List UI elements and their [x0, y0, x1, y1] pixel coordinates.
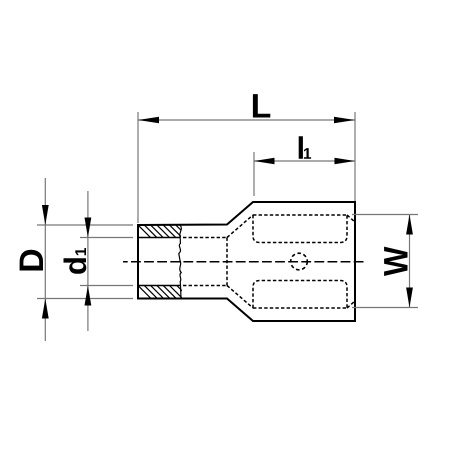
- arrow d1 bottom: [85, 286, 92, 306]
- crimp barrel inner wall bottom (solid): [138, 285, 181, 287]
- label W: [384, 247, 407, 276]
- hatch: barrel wall section top: [136, 223, 190, 239]
- extension line l1 left: [253, 152, 255, 196]
- hidden line: barrel bore bottom: [183, 285, 227, 287]
- label D: [20, 250, 43, 271]
- hidden line: taper inner bottom diagonal: [227, 286, 253, 309]
- arrow d1 top: [85, 218, 92, 238]
- arrow D bottom: [42, 299, 49, 319]
- dimension line L: [138, 119, 355, 121]
- hidden contact window bottom: [253, 281, 355, 309]
- extension line W bottom: [352, 307, 418, 309]
- hidden line: barrel end vertical: [226, 238, 228, 286]
- arrow L right: [334, 117, 355, 124]
- extension line D bottom: [37, 298, 133, 300]
- label L: [253, 94, 270, 117]
- extension line d1 bottom: [80, 285, 133, 287]
- extension line L/l1 right: [354, 112, 356, 201]
- label l1: [299, 136, 311, 159]
- crimp barrel inner wall top (solid): [138, 237, 180, 239]
- dimension line d1: [87, 191, 89, 331]
- label d1: [64, 248, 87, 274]
- extension line d1 top: [80, 237, 133, 239]
- extension line D top: [37, 224, 133, 226]
- terminal body outline: [138, 202, 355, 321]
- extension line L left: [137, 112, 139, 223]
- arrow W bottom: [406, 288, 413, 308]
- break line (wavy): [179, 225, 182, 299]
- hidden dimple circle: [291, 253, 308, 270]
- dimension line W: [409, 215, 411, 308]
- arrow l1 right: [335, 158, 356, 165]
- arrow L left: [138, 117, 159, 124]
- dimension line D: [44, 178, 46, 341]
- arrow D top: [42, 205, 49, 225]
- arrow l1 left: [254, 158, 275, 165]
- hatch: barrel wall section bottom: [136, 284, 191, 300]
- arrow W top: [406, 215, 413, 235]
- dimension line l1: [254, 160, 355, 162]
- extension line W top: [352, 214, 418, 216]
- hidden contact window top: [253, 215, 355, 243]
- hidden line: barrel bore top: [183, 237, 227, 239]
- hidden line: taper inner top diagonal: [227, 215, 253, 238]
- centerline: [123, 261, 366, 263]
